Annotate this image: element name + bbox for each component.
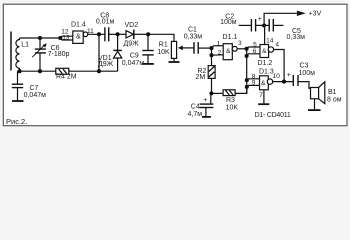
- wire to pin 5: [247, 47, 260, 49]
- capacitor C4 (electrolytic): [210, 93, 212, 104]
- op-amp gate D1.1: [223, 44, 232, 60]
- svg-text:9: 9: [252, 80, 256, 87]
- svg-text:14: 14: [266, 37, 274, 44]
- wire R4 to VD1 anode: [69, 70, 118, 72]
- diode VD1: [117, 34, 119, 50]
- resistor R2: [208, 66, 215, 79]
- svg-text:L1: L1: [21, 41, 29, 48]
- svg-text:+: +: [203, 97, 207, 104]
- svg-text:0,33м: 0,33м: [287, 34, 306, 41]
- svg-text:+: +: [287, 72, 291, 79]
- ground under C7: [12, 100, 24, 102]
- wire to pin 2: [212, 54, 224, 56]
- svg-text:0,33м: 0,33м: [184, 33, 203, 40]
- svg-text:VD2: VD2: [125, 22, 139, 29]
- node pin 6 tap: [245, 54, 249, 58]
- wire detector to R1: [148, 34, 174, 41]
- svg-text:C4: C4: [191, 104, 200, 111]
- ground under R1: [169, 61, 180, 63]
- svg-text:&: &: [262, 48, 267, 55]
- capacitor C1: [193, 42, 195, 54]
- node detector: [116, 32, 120, 36]
- node D1.1 output: [245, 47, 249, 51]
- svg-text:C3: C3: [300, 63, 309, 70]
- svg-text:10K: 10K: [157, 49, 170, 56]
- wire pin4 down to output node: [274, 50, 285, 82]
- node R2 top: [209, 53, 213, 57]
- svg-text:D1.4: D1.4: [71, 22, 86, 29]
- svg-text:100м: 100м: [220, 19, 237, 26]
- node supply: [262, 23, 266, 27]
- inductor L1: [16, 38, 20, 71]
- wire +3V supply arrow: [264, 13, 297, 25]
- capacitor C5: [264, 24, 269, 26]
- svg-text:B1: B1: [328, 89, 337, 96]
- capacitor C8: [104, 27, 106, 41]
- wire to pin 9: [247, 85, 260, 87]
- svg-text:0,047м: 0,047м: [24, 92, 47, 99]
- ground under pin 7: [258, 103, 269, 105]
- node D1.1 input: [209, 46, 213, 50]
- wire pin10 to C3: [273, 81, 294, 83]
- node pin11 feedback: [97, 32, 101, 36]
- svg-text:Д9Ж: Д9Ж: [124, 40, 140, 47]
- svg-text:8 ом: 8 ом: [327, 96, 342, 103]
- svg-text:D1.1: D1.1: [223, 34, 238, 41]
- node output feedback junction: [97, 69, 101, 73]
- svg-text:7: 7: [259, 92, 263, 99]
- svg-text:Д9Ж: Д9Ж: [98, 61, 114, 68]
- svg-text:D1- CD4011: D1- CD4011: [255, 112, 291, 119]
- svg-text:0,047м: 0,047м: [122, 60, 145, 67]
- wire to pin 6: [247, 54, 260, 56]
- svg-text:1: 1: [217, 40, 221, 47]
- node fork D1.4: [58, 36, 62, 40]
- node D1.3 pin9 tap: [245, 85, 249, 89]
- resistor R4: [56, 68, 69, 74]
- svg-text:C9: C9: [130, 52, 139, 59]
- svg-text:2: 2: [218, 50, 222, 57]
- op-amp gate D1.4: [73, 31, 83, 43]
- border frame (decorative): [3, 4, 347, 126]
- svg-text:R1: R1: [159, 41, 168, 48]
- ground under C4: [202, 116, 211, 118]
- svg-text:2М: 2М: [196, 74, 206, 81]
- node D1.3 pin8 tap: [245, 78, 249, 82]
- wire vertical to D1.3 and R3: [246, 49, 248, 94]
- svg-text:R3: R3: [226, 97, 235, 104]
- node C6 top: [38, 36, 42, 40]
- svg-text:+3V: +3V: [309, 11, 322, 18]
- wire C3 to speaker: [298, 82, 311, 89]
- svg-text:0,01м: 0,01м: [96, 19, 115, 26]
- svg-text:7-180p: 7-180p: [48, 51, 70, 58]
- wire input fork down: [211, 48, 213, 55]
- svg-text:C7: C7: [30, 85, 39, 92]
- wire pin3 to D1.2 fork: [237, 48, 246, 50]
- speaker B1: [311, 88, 319, 99]
- pin 14 wire: [264, 25, 266, 44]
- capacitor C7: [17, 71, 19, 84]
- capacitor C9: [147, 34, 149, 50]
- wire to pin 8: [247, 79, 260, 80]
- wire bottom tank rail: [20, 70, 56, 72]
- ground under speaker: [308, 109, 321, 111]
- op-amp gate D1.3: [260, 76, 269, 90]
- wire feedback vertical: [98, 34, 100, 71]
- potentiometer R1: [171, 41, 176, 58]
- node B feedback: [209, 91, 213, 95]
- diode VD2: [118, 33, 126, 35]
- node C6 bottom: [38, 69, 42, 73]
- svg-text:10: 10: [273, 73, 281, 80]
- ferrite core of magnetic antenna: [10, 32, 12, 71]
- svg-text:10K: 10K: [226, 105, 239, 112]
- svg-text:13: 13: [62, 34, 70, 41]
- svg-text:&: &: [226, 48, 231, 55]
- svg-text:Рис.2.: Рис.2.: [6, 117, 27, 126]
- wire to pin 1: [212, 46, 224, 48]
- svg-text:+: +: [258, 16, 262, 23]
- capacitor C3 (electrolytic output): [292, 75, 294, 86]
- svg-text:3: 3: [238, 40, 242, 47]
- wire top rail from L1 to gate input fork: [20, 37, 61, 39]
- node L1 bottom: [17, 69, 21, 73]
- svg-text:6: 6: [253, 48, 257, 55]
- wiper arrow of R1: [181, 47, 194, 49]
- pin 7 wire: [263, 90, 265, 104]
- svg-text:&: &: [261, 80, 266, 87]
- ground under C9: [142, 63, 154, 65]
- svg-text:100м: 100м: [299, 70, 316, 77]
- wire pin11 to C8: [88, 33, 105, 35]
- capacitor C2 (electrolytic supply filter): [239, 24, 251, 26]
- svg-text:4: 4: [275, 42, 279, 49]
- svg-text:D1.2: D1.2: [258, 60, 273, 67]
- node detector output: [146, 32, 150, 36]
- svg-text:&: &: [76, 33, 81, 40]
- capacitor C6 (variable, tuning): [39, 38, 41, 49]
- wire fork into D1.4 inputs: [60, 36, 73, 38]
- node output pair: [282, 80, 286, 84]
- op-amp gate D1.2: [260, 45, 269, 58]
- svg-text:R4 2М: R4 2М: [56, 74, 77, 81]
- resistor R3: [211, 92, 222, 94]
- svg-text:4,7м: 4,7м: [188, 111, 203, 118]
